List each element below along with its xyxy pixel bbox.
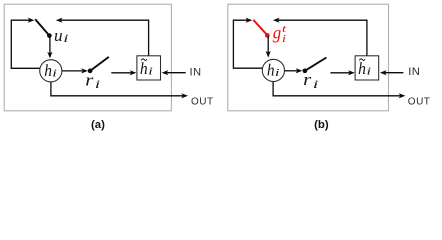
svg-text:i: i — [148, 67, 153, 78]
svg-text:u: u — [54, 26, 63, 45]
svg-text:(a): (a) — [91, 119, 105, 131]
svg-text:i: i — [63, 33, 68, 45]
svg-text:g: g — [273, 23, 282, 43]
svg-text:i: i — [52, 67, 57, 79]
svg-text:IN: IN — [408, 66, 420, 78]
svg-text:i: i — [367, 67, 372, 78]
svg-text:i: i — [313, 79, 318, 91]
svg-text:(b): (b) — [314, 119, 329, 131]
svg-text:r: r — [303, 70, 312, 89]
svg-text:h: h — [358, 59, 366, 78]
svg-text:i: i — [95, 79, 100, 91]
svg-text:h: h — [140, 59, 148, 78]
svg-text:r: r — [85, 70, 94, 89]
svg-text:i: i — [275, 67, 280, 79]
svg-text:OUT: OUT — [191, 96, 214, 107]
svg-text:h: h — [44, 61, 52, 80]
svg-text:i: i — [282, 34, 286, 45]
svg-text:OUT: OUT — [408, 96, 431, 107]
svg-text:IN: IN — [190, 67, 202, 79]
svg-text:h: h — [267, 60, 275, 79]
